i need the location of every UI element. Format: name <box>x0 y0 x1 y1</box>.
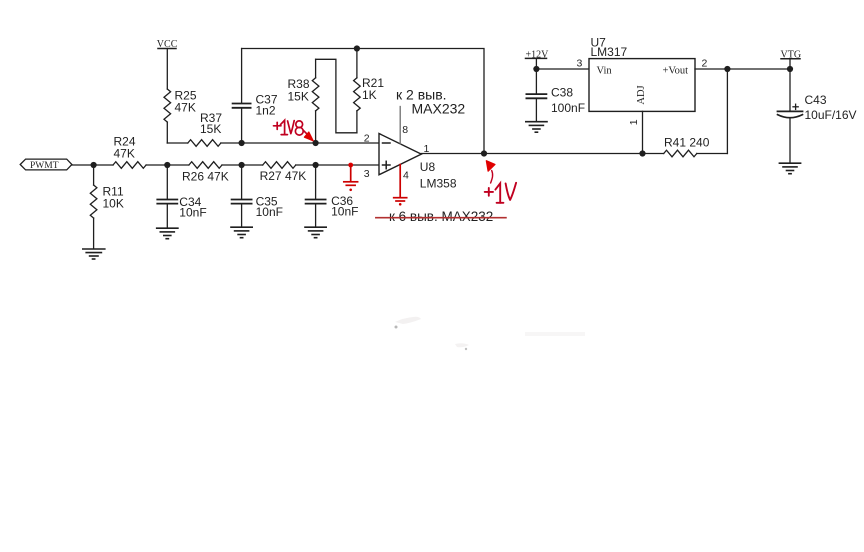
wire C37 node to pin2 node <box>242 142 316 144</box>
wire C34 node to R26 <box>167 164 189 166</box>
resistor R26 <box>182 162 242 184</box>
resistor R41 <box>643 136 728 157</box>
faint eraser artifacts <box>395 317 586 350</box>
regulator U7 LM317 <box>589 36 695 112</box>
node pin2 junction <box>313 140 319 146</box>
wire PWMT to R11 node <box>72 164 113 166</box>
svg-text:R41 240: R41 240 <box>664 136 710 150</box>
resistor R27 <box>260 162 316 183</box>
ground (R11) <box>83 249 105 259</box>
svg-text:R26 47K: R26 47K <box>182 170 229 184</box>
resistor R37 <box>188 111 242 146</box>
wire R38 top staircase to R21 bottom <box>316 59 357 133</box>
red annotation "+1V" with arrow <box>485 161 516 203</box>
svg-text:MAX232: MAX232 <box>412 101 466 117</box>
svg-text:1K: 1K <box>362 88 377 102</box>
wire C36 node to op-amp pin 3 <box>316 164 379 166</box>
capacitor C38 <box>526 69 585 121</box>
capacitor C43 (polarized) <box>778 69 857 162</box>
svg-text:15K: 15K <box>288 90 309 104</box>
svg-text:1: 1 <box>628 119 640 125</box>
svg-text:C43: C43 <box>805 93 827 107</box>
svg-text:1n2: 1n2 <box>256 104 276 118</box>
svg-text:10nF: 10nF <box>256 205 283 219</box>
svg-text:3: 3 <box>364 168 370 180</box>
wire top feedback <box>242 49 484 154</box>
svg-text:10nF: 10nF <box>331 205 358 219</box>
node Vout junction <box>724 66 730 72</box>
annotation "к 6 выв. MAX232" struck through in red <box>376 209 506 224</box>
svg-text:10K: 10K <box>103 197 124 211</box>
red ground at op-amp pin 3 <box>344 163 358 192</box>
svg-text:10uF/16V: 10uF/16V <box>805 108 857 122</box>
wire C35 node to R27 <box>242 164 263 166</box>
svg-text:10nF: 10nF <box>179 206 206 220</box>
svg-text:+Vout: +Vout <box>663 66 689 77</box>
red annotation "+1V8" with arrow <box>274 120 314 141</box>
resistor R25 <box>164 89 197 144</box>
wire pin2 node to op-amp pin 2 <box>316 142 379 144</box>
node C35 junction <box>239 162 245 168</box>
svg-text:LM358: LM358 <box>420 177 457 191</box>
node VTG junction <box>787 66 793 72</box>
wire U7 Vout to VTG node <box>695 68 790 70</box>
power VTG <box>781 50 802 70</box>
capacitor C34 <box>157 165 206 227</box>
pin 8 stub wire <box>399 107 401 144</box>
svg-text:PWMT: PWMT <box>30 161 59 171</box>
svg-text:47K: 47K <box>175 101 196 115</box>
node C36 junction <box>313 162 319 168</box>
node +12V junction <box>533 66 539 72</box>
resistor R38 <box>288 59 319 143</box>
ground (C35) <box>231 227 252 238</box>
node R21 top junction <box>354 45 360 51</box>
svg-text:U8: U8 <box>420 160 436 174</box>
svg-text:к 6 выв. MAX232: к 6 выв. MAX232 <box>389 209 493 224</box>
svg-text:C38: C38 <box>551 86 573 100</box>
svg-text:3: 3 <box>577 58 583 70</box>
power +12V <box>526 50 550 70</box>
ground (C34) <box>157 228 178 239</box>
resistor R11 <box>90 165 124 248</box>
ground (C36) <box>305 227 326 238</box>
svg-text:2: 2 <box>364 133 370 145</box>
capacitor C37 <box>233 49 278 144</box>
wire R41 up to Vout node <box>726 69 728 154</box>
svg-text:R27 47K: R27 47K <box>260 169 307 183</box>
node ADJ junction <box>639 150 645 156</box>
power VCC <box>157 39 178 89</box>
wire +12V to U7 Vin <box>536 68 589 70</box>
capacitor C36 <box>306 165 359 226</box>
svg-text:2: 2 <box>702 58 708 70</box>
annotation "к 2 выв. MAX232" <box>396 87 465 117</box>
svg-text:LM317: LM317 <box>591 45 628 59</box>
svg-text:15K: 15K <box>200 122 221 136</box>
op-amp U8 <box>364 124 457 191</box>
node C37 bottom junction <box>239 140 245 146</box>
resistor R21 <box>354 49 385 133</box>
svg-text:Vin: Vin <box>597 66 613 77</box>
ground (C38) <box>526 122 547 133</box>
node output junction <box>481 150 487 156</box>
net label PWMT <box>20 159 72 171</box>
op-amp output wire <box>421 153 642 155</box>
svg-text:ADJ: ADJ <box>636 85 647 104</box>
wire R25 bottom to R37 <box>167 142 188 144</box>
svg-text:100nF: 100nF <box>551 101 585 115</box>
svg-text:4: 4 <box>403 170 409 182</box>
resistor R24 <box>113 135 167 169</box>
node R11/PWMT junction <box>91 162 97 168</box>
svg-text:8: 8 <box>402 124 408 136</box>
ground (C43) <box>779 163 800 174</box>
wire U7 ADJ pin down <box>642 111 644 153</box>
red pin 4 wire <box>394 165 407 206</box>
capacitor C35 <box>232 165 283 226</box>
svg-text:47K: 47K <box>114 147 135 161</box>
node C34 junction <box>164 162 170 168</box>
